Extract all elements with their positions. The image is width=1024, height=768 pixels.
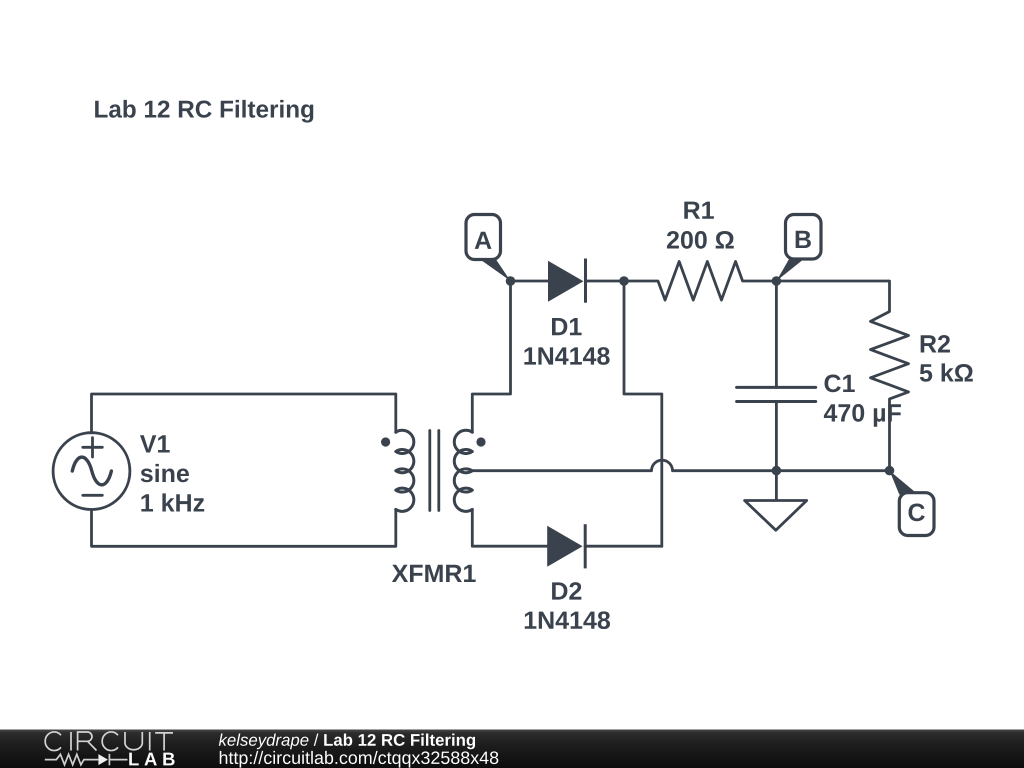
logo LAB text [129, 753, 174, 766]
flag C wedge [890, 471, 918, 495]
wire D2 cathode to corner [585, 545, 662, 548]
transformer XFMR1 primary coil [396, 430, 414, 511]
flag A wedge [479, 258, 511, 281]
flag C box [899, 493, 934, 536]
capacitor C1 top wire [775, 281, 778, 387]
label R2 value 5 kohm [920, 363, 973, 381]
logo CIRCUIT lettering [45, 732, 173, 751]
logo resistor-diode glyph [45, 754, 128, 765]
capacitor C1 bottom wire [775, 402, 778, 471]
label sine [141, 464, 189, 482]
secondary phase dot [476, 437, 485, 446]
wire D1 cathode to node [586, 280, 625, 283]
diode D1 cathode bar [584, 259, 587, 303]
center tap rail with hop over vertical wire [472, 460, 889, 470]
label R1 value 200 ohm [667, 231, 734, 249]
label C1 value 470 uF [824, 404, 901, 427]
flag B wedge [776, 258, 804, 281]
V1 plus sign [83, 438, 103, 457]
label D1 value 1N4148 [524, 347, 609, 365]
flag A box [466, 215, 501, 260]
transformer core lines [430, 431, 439, 511]
bottom black bar [0, 730, 1024, 768]
credit line 2 url [220, 751, 499, 768]
voltage source V1 circle [53, 433, 130, 510]
label R1 [684, 202, 714, 219]
label D2 [552, 582, 581, 599]
wire node B right, resistor R2, wire down to node C [776, 281, 908, 471]
node dot B [772, 276, 782, 286]
label 1 kHz [141, 493, 204, 511]
V1 minus sign [83, 494, 103, 497]
wire secondary bottom to D2 anode [472, 509, 548, 546]
V1 sine wave [72, 457, 111, 485]
label D1 [552, 318, 582, 335]
node B letter [796, 231, 811, 248]
node dot after D1 [619, 276, 629, 286]
node A letter [475, 232, 492, 249]
diode D2 triangle [547, 526, 582, 567]
ground triangle [745, 501, 807, 531]
wire D1 cathode branch down to D2 cathode corner [624, 281, 662, 546]
resistor R1 [624, 262, 776, 301]
logo diode triangle [98, 754, 108, 765]
title text [95, 100, 313, 123]
label R2 [921, 335, 950, 352]
label D2 value 1N4148 [525, 611, 610, 629]
node dot C1 bottom [772, 466, 782, 476]
diode D2 cathode bar [584, 524, 587, 568]
label C1 [825, 375, 855, 393]
label XFMR1 [392, 565, 476, 582]
transformer XFMR1 secondary coil [454, 430, 472, 511]
wire bottom-left loop: source bottom to primary bottom [92, 509, 396, 546]
capacitor C1 plates [737, 387, 816, 401]
wire node A to D1 anode [511, 280, 549, 283]
label V1 [140, 435, 170, 452]
node dot A [506, 276, 516, 286]
diode D1 triangle [548, 261, 584, 302]
ground stem [775, 471, 778, 500]
wire secondary top to node A [472, 281, 510, 432]
flag B box [786, 215, 822, 260]
primary phase dot [381, 437, 390, 446]
wire top-left loop: source top to primary top [92, 394, 396, 433]
node C letter [909, 504, 925, 522]
credit line 1: kelseydrape / Lab 12 RC Filtering [219, 734, 475, 750]
node dot C [885, 466, 895, 476]
